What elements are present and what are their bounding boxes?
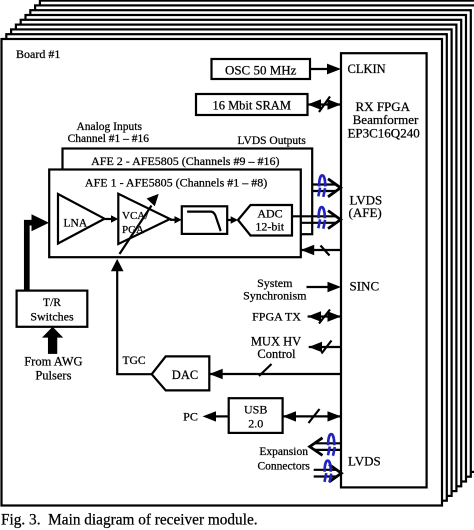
- svg-text:AFE 2 - AFE5805 (Channels #9 –: AFE 2 - AFE5805 (Channels #9 – #16): [91, 154, 279, 168]
- svg-text:Fig. 3. Main diagram of recei: Fig. 3. Main diagram of receiver module.: [1, 512, 258, 529]
- block AFE 2: [63, 149, 313, 235]
- block AFE 1: [49, 170, 301, 258]
- blue pair marks on AFE1 LVDS arrow: [318, 207, 325, 229]
- label Expansion Connectors: [258, 446, 311, 473]
- label Board #1: [16, 47, 60, 61]
- wire LNA to VCA: [105, 215, 119, 222]
- wire USB to PC: [203, 411, 229, 421]
- svg-text:From AWG: From AWG: [24, 355, 82, 369]
- svg-text:USB: USB: [244, 403, 267, 417]
- wire FPGA to DAC with slash: [209, 364, 341, 379]
- label PC: [183, 410, 198, 424]
- wire System Synchronism to SINC: [307, 282, 342, 292]
- svg-text:ADC: ADC: [257, 207, 282, 221]
- svg-text:Synchronism: Synchronism: [243, 289, 307, 303]
- svg-text:FPGA TX: FPGA TX: [252, 310, 301, 324]
- block USB 2.0: [229, 398, 283, 433]
- svg-text:Channel #1 – #16: Channel #1 – #16: [68, 133, 150, 145]
- wire TGC from DAC to VCA: [111, 259, 152, 374]
- svg-text:CLKIN: CLKIN: [348, 62, 386, 76]
- svg-text:Expansion: Expansion: [259, 446, 308, 458]
- svg-text:Switches: Switches: [30, 310, 74, 324]
- blue pair marks on AFE2 LVDS arrow: [318, 175, 325, 197]
- svg-text:Analog Inputs: Analog Inputs: [76, 121, 142, 133]
- label FPGA TX: [252, 310, 301, 324]
- thick input arrow from T/R to AFE1: [27, 214, 49, 292]
- wire SRAM to FPGA bidirectional with bus slash: [308, 97, 342, 113]
- svg-text:Control: Control: [257, 347, 296, 361]
- svg-text:LVDS Outputs: LVDS Outputs: [238, 135, 307, 147]
- amplifier VCA/PGA: [118, 194, 170, 244]
- block 16 Mbit SRAM: [196, 94, 308, 115]
- svg-text:SINC: SINC: [350, 279, 380, 294]
- svg-text:LNA: LNA: [64, 218, 88, 230]
- wire filter to ADC: [227, 216, 238, 223]
- wire FPGA to MUX HV with slash: [309, 341, 341, 354]
- wire VCA to filter: [170, 216, 182, 223]
- blue pair marks on expansion in arrow: [325, 461, 332, 483]
- block low-pass filter: [182, 206, 227, 234]
- svg-text:Connectors: Connectors: [258, 461, 311, 473]
- LVDS bus arrow AFE2 to FPGA: [328, 179, 341, 197]
- wire FPGA to AFE1 control with slash: [301, 245, 341, 256]
- wire OSC to CLKIN: [310, 64, 341, 75]
- caption Fig. 3: [1, 512, 258, 529]
- converter DAC: [152, 356, 210, 390]
- svg-text:T/R: T/R: [43, 297, 61, 309]
- label TGC: [123, 355, 146, 367]
- wire AFE2 to LVDS arrow: [312, 185, 336, 192]
- label System Synchronism: [243, 276, 307, 303]
- LVDS bus arrow AFE1 to FPGA: [328, 211, 341, 229]
- svg-text:TGC: TGC: [123, 355, 146, 367]
- svg-text:Board #1: Board #1: [16, 47, 60, 61]
- block T/R Switches: [17, 291, 88, 327]
- block OSC 50 MHz: [212, 59, 311, 79]
- svg-text:12-bit: 12-bit: [255, 220, 284, 234]
- thick arrow from AWG pulsers to T/R: [42, 327, 63, 354]
- svg-text:OSC 50 MHz: OSC 50 MHz: [225, 63, 297, 78]
- wire FPGA TX bidirectional with slash: [308, 310, 341, 324]
- LVDS expansion arrow into FPGA: [314, 464, 342, 482]
- amplifier LNA: [58, 194, 105, 244]
- svg-text:EP3C16Q240: EP3C16Q240: [347, 126, 419, 141]
- wire USB to FPGA bidirectional with slash: [283, 409, 341, 423]
- svg-text:DAC: DAC: [172, 368, 198, 382]
- svg-text:AFE 1 - AFE5805 (Channels #1 –: AFE 1 - AFE5805 (Channels #1 – #8): [85, 176, 267, 190]
- blue pair marks on expansion out arrow: [328, 434, 335, 456]
- block ADC 12-bit: [238, 205, 292, 236]
- block RX FPGA: [341, 53, 427, 487]
- svg-text:LVDS: LVDS: [348, 454, 381, 469]
- svg-text:PC: PC: [183, 410, 198, 424]
- svg-text:Pulsers: Pulsers: [35, 369, 71, 383]
- svg-text:2.0: 2.0: [248, 417, 263, 431]
- wire ADC to LVDS arrow: [292, 216, 336, 223]
- label LVDS Outputs: [238, 135, 307, 147]
- svg-text:(AFE): (AFE): [349, 205, 382, 220]
- label MUX HV Control: [251, 335, 301, 362]
- LVDS expansion arrow out of FPGA: [310, 438, 341, 456]
- label Analog Inputs Channel #1 - #16: [68, 121, 150, 145]
- label From AWG Pulsers: [24, 355, 82, 383]
- svg-text:16 Mbit SRAM: 16 Mbit SRAM: [212, 99, 291, 113]
- gain control arrow through VCA: [120, 194, 159, 254]
